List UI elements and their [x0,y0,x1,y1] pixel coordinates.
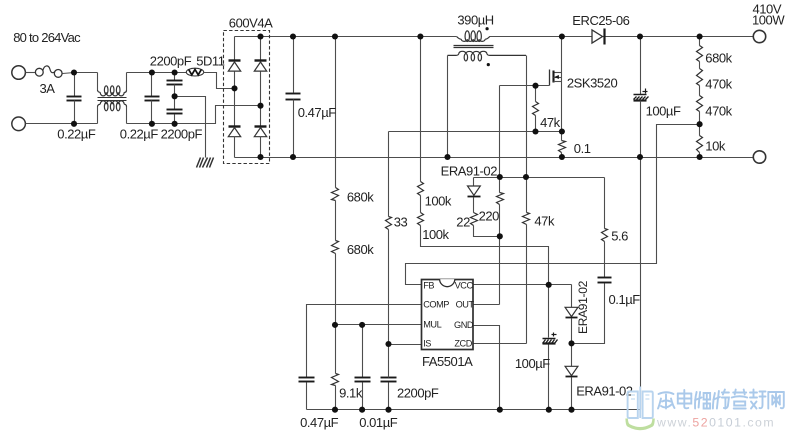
svg-text:0.22µF: 0.22µF [120,126,159,141]
svg-text:10k: 10k [705,139,726,154]
svg-text:2200pF: 2200pF [397,385,439,400]
svg-text:680k: 680k [705,50,732,65]
svg-text:80 to 264Vac: 80 to 264Vac [13,30,81,45]
svg-text:600V4A: 600V4A [229,16,273,31]
svg-text:ERA91-02: ERA91-02 [441,164,498,179]
svg-text:5.6: 5.6 [611,228,628,243]
svg-text:470k: 470k [705,103,732,118]
svg-text:100W: 100W [752,12,785,27]
svg-text:ZCD: ZCD [454,339,472,349]
svg-text:ERA91-02: ERA91-02 [576,280,590,334]
svg-text:OUT: OUT [456,300,475,310]
svg-text:0.22µF: 0.22µF [57,126,96,141]
svg-text:22: 22 [456,214,470,229]
svg-text:ERA91-02: ERA91-02 [576,383,633,398]
svg-text:FA5501A: FA5501A [422,354,473,369]
svg-text:47k: 47k [540,115,561,130]
svg-text:5D11: 5D11 [196,54,225,69]
svg-text:2200pF: 2200pF [161,126,203,141]
svg-text:MUL: MUL [423,319,441,329]
svg-text:3A: 3A [40,81,56,96]
svg-text:VCC: VCC [455,281,474,291]
svg-text:2SK3520: 2SK3520 [567,75,618,90]
svg-text:0.47µF: 0.47µF [300,415,339,430]
svg-text:0.1: 0.1 [574,141,591,156]
svg-text:100k: 100k [422,227,449,242]
svg-text:www.520101.com: www.520101.com [656,416,775,430]
svg-text:9.1k: 9.1k [339,385,363,400]
svg-text:0.1µF: 0.1µF [609,292,641,307]
svg-text:33: 33 [394,214,408,229]
svg-text:0.47µF: 0.47µF [298,105,337,120]
svg-text:COMP: COMP [423,300,449,310]
svg-text:220: 220 [479,209,500,224]
svg-text:47k: 47k [534,213,555,228]
svg-text:470k: 470k [705,76,732,91]
svg-text:100µF: 100µF [515,356,550,371]
svg-text:390µH: 390µH [457,13,493,28]
svg-text:680k: 680k [347,190,374,205]
svg-text:GND: GND [454,320,474,330]
svg-text:680k: 680k [347,242,374,257]
svg-text:ERC25-06: ERC25-06 [572,13,629,28]
svg-text:2200pF: 2200pF [150,54,192,69]
svg-text:FB: FB [423,281,434,291]
svg-text:100µF: 100µF [646,104,681,119]
svg-text:100k: 100k [425,194,452,209]
svg-text:IS: IS [423,339,431,349]
svg-text:0.01µF: 0.01µF [359,415,398,430]
